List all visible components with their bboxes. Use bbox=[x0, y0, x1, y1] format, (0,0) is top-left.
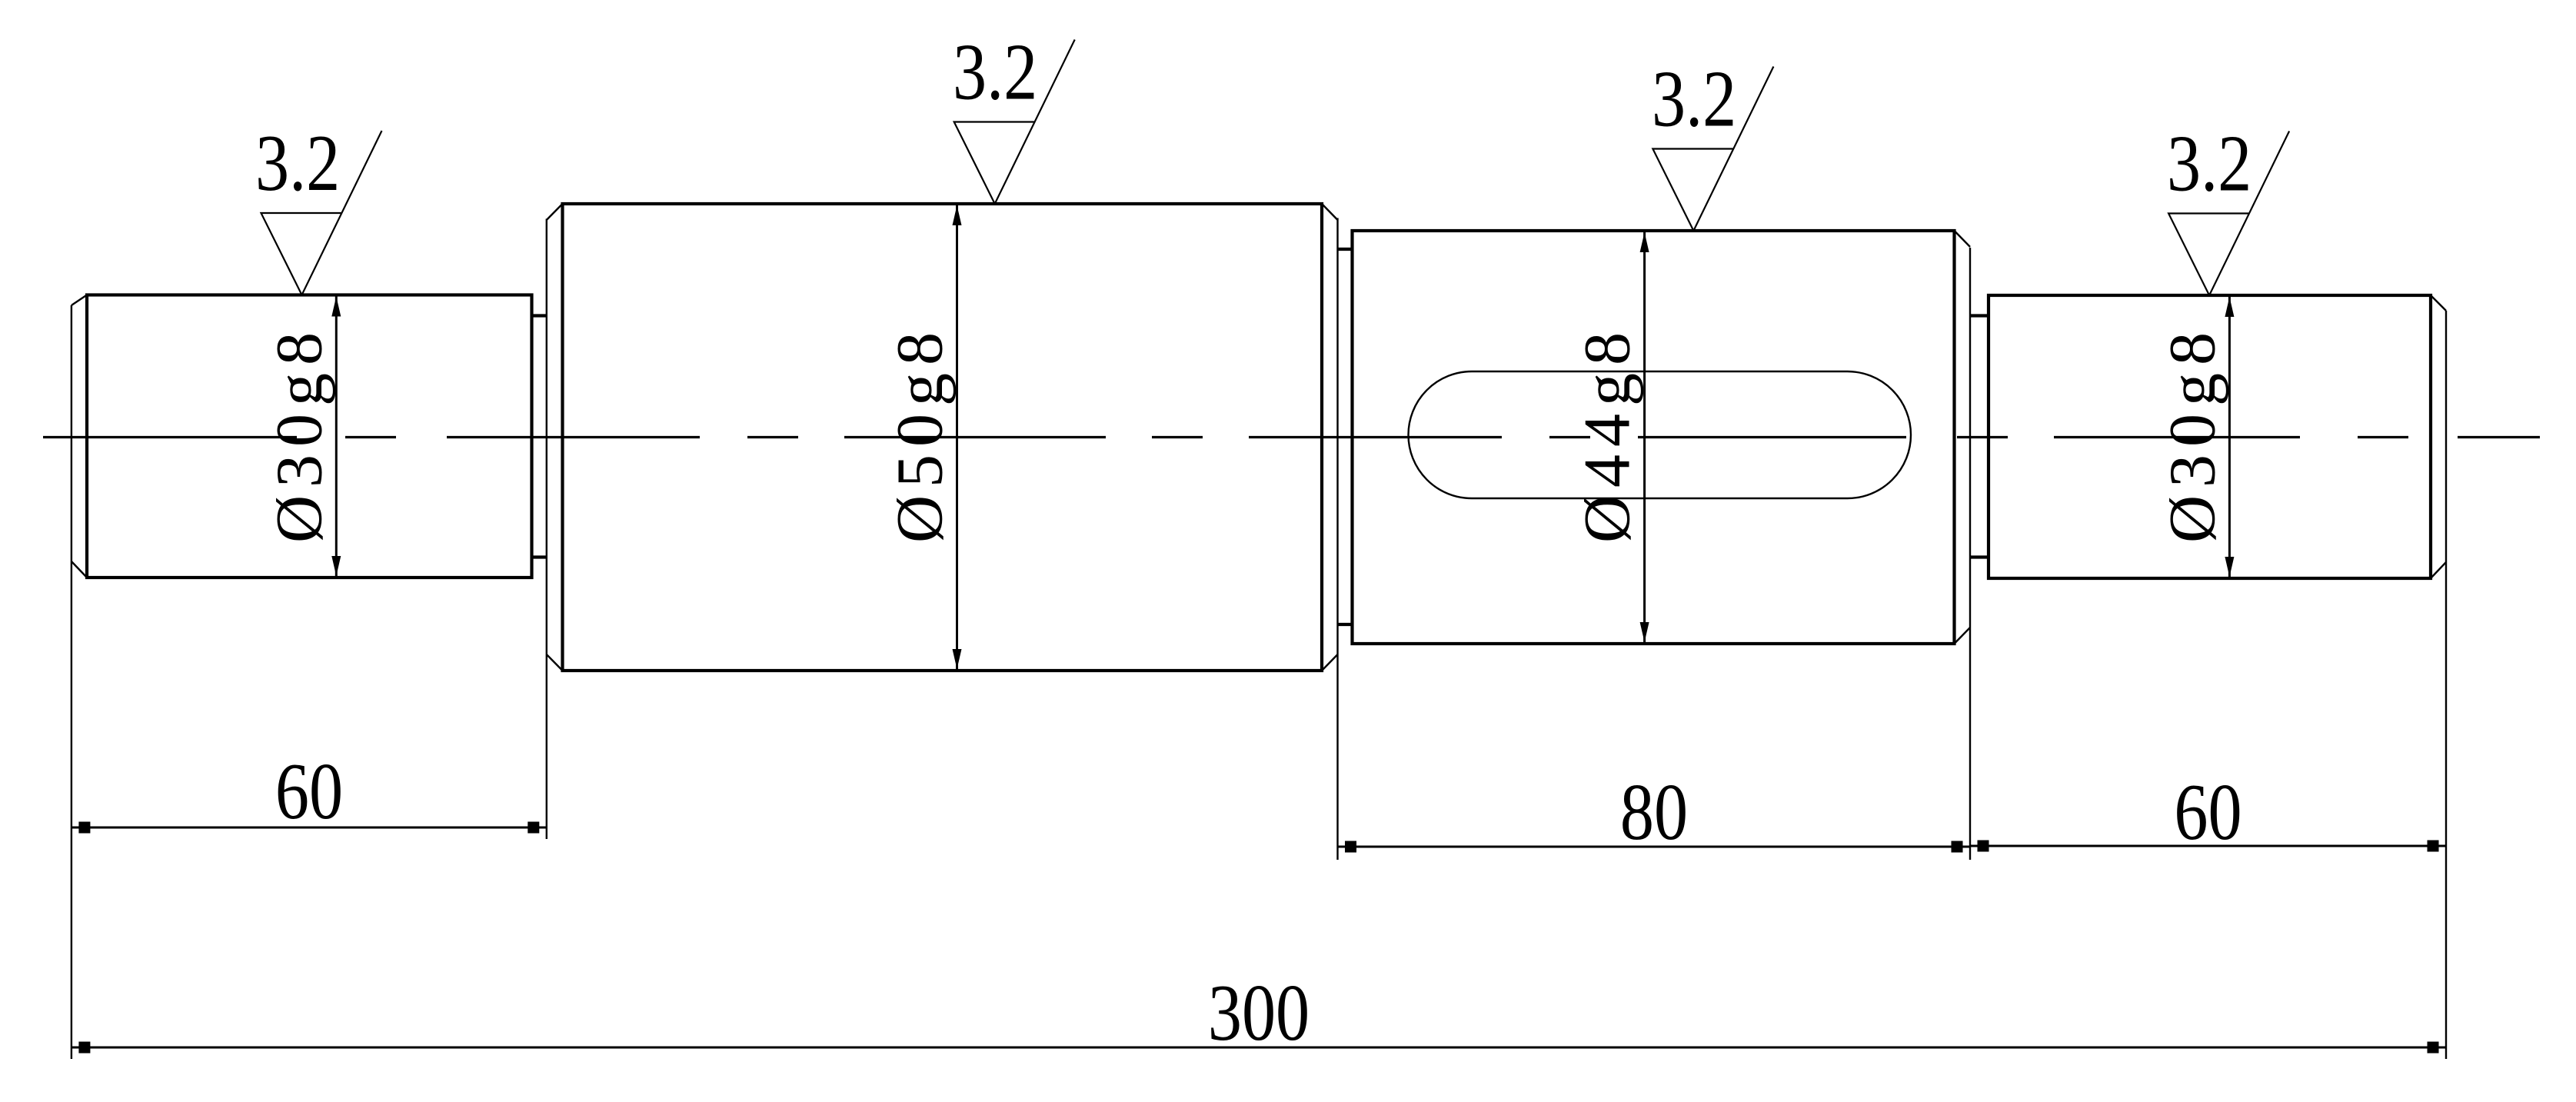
svg-text:60: 60 bbox=[275, 747, 343, 836]
svg-text:Ø44g8: Ø44g8 bbox=[1570, 325, 1644, 543]
svg-text:300: 300 bbox=[1208, 968, 1310, 1057]
svg-text:3.2: 3.2 bbox=[1652, 54, 1736, 143]
svg-text:3.2: 3.2 bbox=[2167, 118, 2252, 208]
svg-text:Ø50g8: Ø50g8 bbox=[883, 325, 957, 543]
svg-text:3.2: 3.2 bbox=[255, 118, 340, 208]
svg-text:60: 60 bbox=[2174, 767, 2242, 857]
svg-text:Ø30g8: Ø30g8 bbox=[261, 325, 335, 543]
svg-text:3.2: 3.2 bbox=[953, 27, 1037, 116]
svg-text:Ø30g8: Ø30g8 bbox=[2155, 325, 2228, 543]
svg-text:80: 80 bbox=[1620, 767, 1688, 857]
